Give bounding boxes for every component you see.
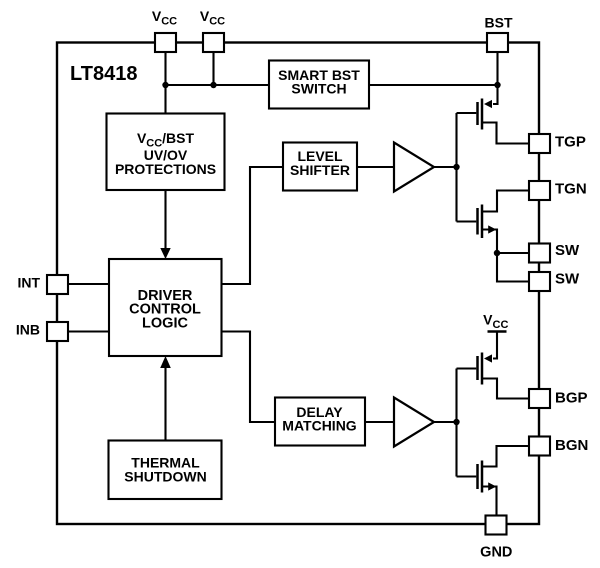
transistor Q1 channel bar <box>481 99 484 130</box>
svg-text:GND: GND <box>480 545 512 561</box>
svg-text:BGN: BGN <box>555 437 588 454</box>
wire: top gate bus vertical <box>455 113 457 222</box>
wire: smart bst switch to bst node <box>369 84 498 86</box>
pin GND <box>486 516 507 535</box>
wire: vcc rail to smart bst switch <box>166 84 270 86</box>
svg-text:LT8418: LT8418 <box>70 63 137 85</box>
pin VCC1 <box>155 33 176 52</box>
transistor Q3 source arrow <box>484 354 492 362</box>
pin INT <box>47 275 68 294</box>
block: THERMAL SHUTDOWN <box>109 441 222 500</box>
svg-text:TGN: TGN <box>555 180 587 197</box>
transistor Q1 source arrow <box>484 100 492 108</box>
block: LEVEL SHIFTER <box>283 143 357 191</box>
wire: Q1 drain to TGP <box>482 123 529 144</box>
wire: Q4 drain to BGN <box>482 446 529 467</box>
node: VCC2 junction <box>210 82 216 88</box>
pin VCC2 <box>203 33 224 52</box>
svg-text:INT: INT <box>17 275 40 291</box>
wire: VCC1 stem down to protections box <box>164 52 166 114</box>
node: SW junction <box>494 250 500 256</box>
wire: buffer U3 output to gate bus <box>434 421 457 423</box>
buffer U3 triangle <box>394 398 434 447</box>
svg-text:BGP: BGP <box>555 390 588 407</box>
wire: node down to SW2 <box>497 253 529 282</box>
node: VCC1 junction <box>162 82 168 88</box>
wire: delay matching to buffer U3 <box>365 421 394 423</box>
wire: INT to driver <box>68 283 109 285</box>
wire: driver to delay matching <box>222 332 276 423</box>
transistor Q1 gate bar <box>476 102 479 125</box>
transistor Q3 channel bar <box>481 353 484 385</box>
svg-text:PROTECTIONS: PROTECTIONS <box>115 161 216 177</box>
buffer U2 triangle <box>394 143 434 192</box>
wire: INB to driver <box>68 330 109 332</box>
wire: BST stem down to Q1 source <box>493 52 498 104</box>
pin BGN <box>529 437 550 456</box>
wire: driver to level shifter <box>222 167 284 284</box>
wire: Q2 drain to TGN <box>482 191 530 212</box>
power VCC bar for Q3 <box>488 330 507 333</box>
wire: protections to driver arrow <box>164 190 166 249</box>
pin TGN <box>529 181 550 200</box>
block: SMART BST SWITCH <box>269 61 369 109</box>
pin SW1 <box>529 244 550 263</box>
wire: node to SW1 <box>497 252 529 254</box>
wire: level shifter to buffer U2 <box>357 166 394 168</box>
pin TGP <box>529 134 550 153</box>
wire: VCC bar to Q3 source <box>493 332 497 359</box>
wire: bottom gate bus vertical <box>455 369 457 477</box>
wire: Q1 gate lead <box>457 112 477 114</box>
transistor Q2 source arrow <box>488 225 496 233</box>
svg-text:MATCHING: MATCHING <box>282 418 357 434</box>
chip outline border <box>57 43 539 525</box>
svg-text:SWITCH: SWITCH <box>291 81 346 97</box>
svg-text:TGP: TGP <box>555 134 586 151</box>
svg-text:SHUTDOWN: SHUTDOWN <box>124 468 206 484</box>
node: bottom gate bus junction <box>453 419 459 425</box>
pin SW2 <box>529 272 550 291</box>
transistor Q4 source arrow <box>488 482 496 490</box>
block: DELAY MATCHING <box>275 398 365 446</box>
transistor Q2 source lead <box>482 230 497 254</box>
node: top gate bus junction <box>453 164 459 170</box>
block: DRIVER CONTROL LOGIC <box>109 259 222 356</box>
svg-text:INB: INB <box>16 322 40 338</box>
wire: buffer U2 output to gate bus <box>434 166 457 168</box>
svg-text:LOGIC: LOGIC <box>142 315 188 331</box>
svg-text:SW: SW <box>555 242 580 259</box>
wire: VCC2 stem down to rail <box>212 52 214 85</box>
pin INB <box>47 322 68 341</box>
wire: Q3 drain to BGP <box>482 379 529 399</box>
svg-text:BST: BST <box>485 15 513 31</box>
wire: Q3 gate lead <box>457 367 477 369</box>
wire: Q4 gate lead <box>457 475 477 477</box>
transistor Q2 gate bar <box>476 208 479 235</box>
node: BST junction <box>494 82 500 88</box>
svg-text:SW: SW <box>555 271 580 288</box>
transistor Q3 gate bar <box>476 356 479 380</box>
wire: Q4 source to GND <box>482 487 497 516</box>
svg-text:SHIFTER: SHIFTER <box>290 162 350 178</box>
pin BGP <box>529 389 550 408</box>
transistor Q4 channel bar <box>481 461 484 493</box>
wire: thermal to driver arrow <box>164 366 166 441</box>
pin BST <box>487 33 508 52</box>
transistor Q4 gate bar <box>476 464 479 489</box>
wire: Q2 gate lead <box>457 220 477 222</box>
transistor Q2 channel bar <box>481 205 484 239</box>
block: VCC/BST UV/OV PROTECTIONS <box>107 114 225 191</box>
